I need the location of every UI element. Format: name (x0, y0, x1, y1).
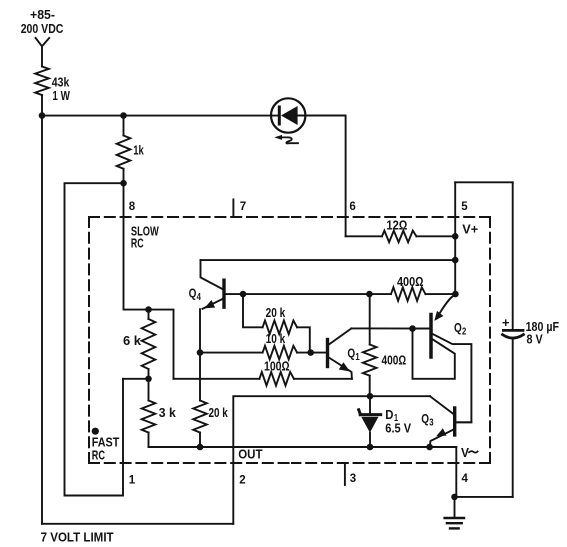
LED indicator arrow (274, 135, 298, 144)
node V+ junction 12ohm (452, 233, 459, 240)
svg-text:100Ω: 100Ω (264, 359, 290, 374)
svg-text:+85-: +85- (30, 7, 55, 22)
wire Q4 collector rail (201, 259, 456, 261)
svg-text:1: 1 (355, 352, 360, 363)
svg-text:7: 7 (240, 201, 246, 213)
wire bottom rail 7 volt limit (42, 523, 233, 525)
node C junction 1k bottom (120, 180, 127, 187)
wire 10k right lead (297, 352, 326, 354)
wire 12ohm right lead (416, 235, 455, 237)
LED CR1 (271, 98, 305, 132)
svg-text:12Ω: 12Ω (386, 218, 407, 233)
node O junction D1 top (367, 393, 374, 400)
wire pin 1 internal to 6k bottom (123, 378, 149, 380)
svg-text:200 VDC: 200 VDC (21, 21, 64, 36)
svg-text:8: 8 (129, 201, 136, 213)
wire 10k left lead (200, 352, 263, 354)
resistor 1k (117, 116, 145, 184)
wire LED to pin 6 corner (298, 116, 346, 237)
transistor Q3 (421, 396, 471, 447)
svg-text:6.5 V: 6.5 V (385, 421, 411, 436)
diode D1 zener 6.5V (359, 396, 412, 447)
capacitor C1 180uF 8V (502, 315, 559, 346)
wire 20k to 10k row (297, 327, 310, 352)
svg-text:3: 3 (350, 473, 356, 485)
node L junction Q2 emitter (452, 291, 459, 298)
wire 400ohm top right lead (426, 293, 456, 295)
svg-text:2: 2 (239, 475, 245, 487)
resistor 400 ohm vertical (363, 294, 406, 396)
resistor 100 ohm (259, 359, 294, 386)
resistor 20k upper (263, 305, 298, 334)
node J junction Q4 base (240, 291, 247, 298)
wire top rail left (42, 115, 279, 117)
node M junction Q1 base (307, 349, 314, 356)
wire box right lower (512, 339, 514, 497)
node E junction 6k bottom (145, 376, 152, 383)
svg-text:3 k: 3 k (159, 405, 177, 420)
svg-text:7 VOLT LIMIT: 7 VOLT LIMIT (41, 530, 114, 545)
node A junction (39, 112, 46, 119)
svg-text:Q: Q (347, 345, 355, 360)
wire 400ohm top left lead (369, 293, 391, 295)
wire Q4 emitter vertical (199, 309, 201, 352)
node VIN label +85-200 VDC (21, 7, 64, 36)
wire V- rail (149, 446, 457, 448)
wire 6k top to riser (149, 310, 174, 379)
svg-text:RC: RC (92, 447, 106, 462)
wire 12ohm left lead (346, 235, 382, 237)
wire Q1 collector to Q2 base (351, 327, 429, 329)
wire box right upper (512, 182, 514, 329)
svg-text:6 k: 6 k (123, 333, 142, 348)
node FAST RC marker (92, 428, 99, 435)
resistor 43k 1W (35, 67, 70, 103)
resistor 12 ohm (382, 218, 416, 243)
resistor 20k lower (193, 353, 228, 447)
svg-text:Q: Q (189, 286, 197, 301)
svg-text:6: 6 (349, 201, 355, 213)
svg-text:400Ω: 400Ω (382, 353, 407, 368)
node B junction 1k top (120, 112, 127, 119)
svg-text:8 V: 8 V (527, 332, 543, 347)
node H junction collector rail at V+ (452, 257, 459, 264)
resistor 6k (123, 310, 155, 379)
wire 100ohm right lead to Q1 emitter (294, 378, 352, 380)
resistor 3k (142, 379, 177, 447)
svg-text:20 k: 20 k (209, 405, 229, 420)
node SLOW RC label (131, 224, 159, 251)
wire OUT horizontal (233, 396, 430, 524)
node F junction 20k bottom (197, 444, 204, 451)
svg-text:5: 5 (461, 201, 468, 213)
transistor Q1 (328, 328, 361, 378)
wire box top (455, 181, 513, 183)
node I junction 10k row left (197, 349, 204, 356)
pin 7 tick (232, 199, 234, 217)
node Q junction Q3 emitter (426, 444, 433, 451)
IC boundary dashed box (89, 217, 490, 463)
wire 20k riser (243, 294, 263, 327)
ground (445, 518, 464, 528)
svg-text:OUT: OUT (238, 446, 262, 461)
wire left outer vertical (41, 116, 43, 524)
svg-text:1: 1 (129, 475, 136, 487)
wire input to 43k (41, 46, 43, 66)
svg-text:1 W: 1 W (52, 88, 70, 103)
wire box bottom to ground node (455, 496, 513, 498)
svg-text:V+: V+ (462, 222, 478, 237)
pin 3 tick (344, 464, 346, 486)
wire Q4 base row to 400ohm (243, 293, 369, 295)
svg-text:400Ω: 400Ω (397, 274, 424, 289)
wire 100ohm left lead (174, 378, 260, 380)
svg-text:3: 3 (429, 418, 434, 429)
resistor 10k (263, 331, 298, 359)
input arrowhead (36, 38, 50, 46)
svg-text:4: 4 (197, 292, 202, 303)
svg-text:10 k: 10 k (266, 331, 286, 346)
wire pin 8 vertical (124, 183, 149, 309)
svg-text:Q: Q (421, 411, 429, 426)
resistor 400 ohm top (391, 274, 426, 301)
wire ground stem (454, 497, 456, 517)
node D junction 6k top (145, 306, 152, 313)
transistor Q2 (413, 295, 472, 423)
node N junction Q2 base (409, 325, 416, 332)
transistor Q4 (189, 260, 224, 309)
svg-text:1k: 1k (133, 143, 144, 158)
node G junction ground (451, 494, 458, 501)
wire Q4 base lead (226, 293, 244, 295)
svg-text:+: + (502, 315, 510, 330)
wire external RC loop pin1 (65, 183, 124, 495)
svg-text:20 k: 20 k (266, 305, 286, 320)
node P junction D1 bottom (367, 444, 374, 451)
wire 43k to top rail (41, 95, 43, 116)
svg-text:2: 2 (462, 327, 467, 338)
svg-text:Q: Q (454, 320, 462, 335)
svg-text:RC: RC (131, 235, 144, 250)
wire pin 4 vertical (455, 447, 457, 497)
wire V+ vertical pin 5 (454, 182, 456, 294)
svg-text:4: 4 (462, 473, 469, 485)
node FAST RC label (92, 435, 120, 463)
node K junction 400ohm vert top (366, 291, 373, 298)
